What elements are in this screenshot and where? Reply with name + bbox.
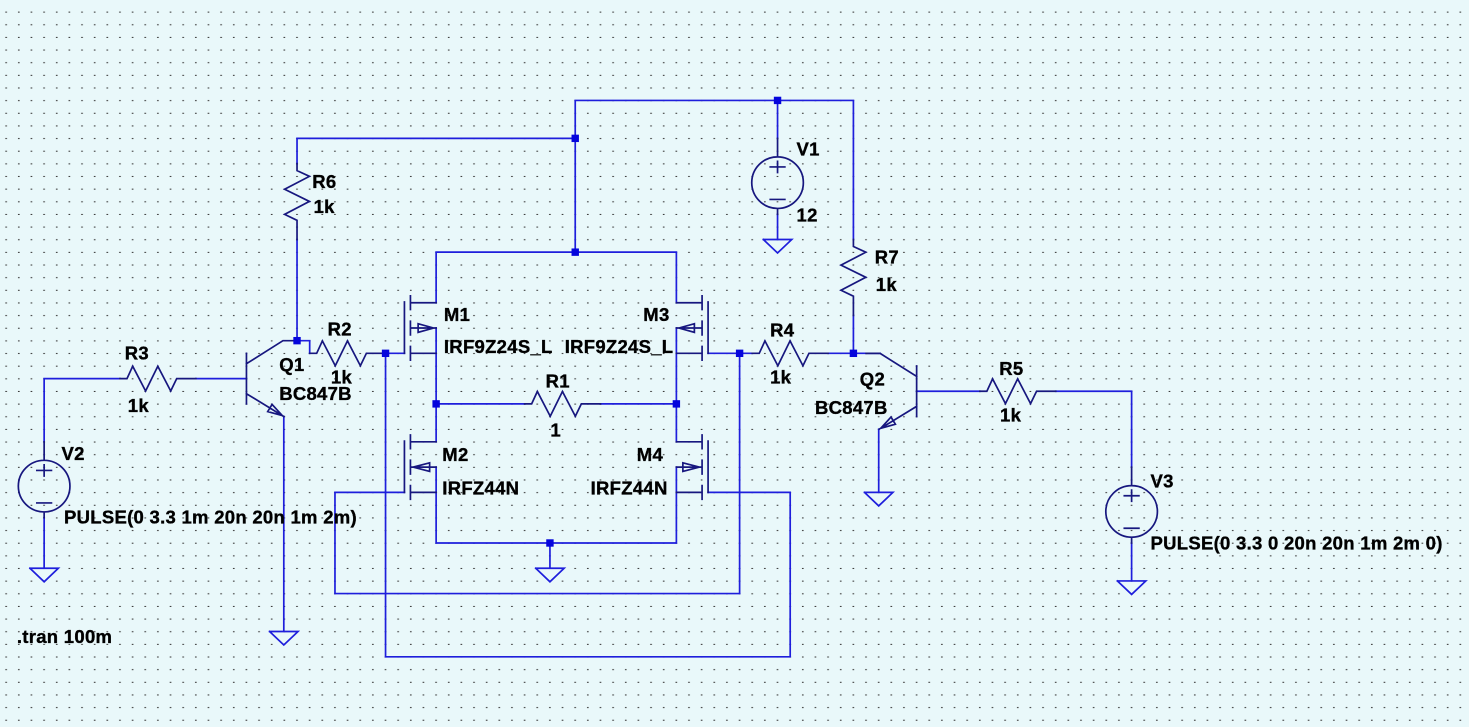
svg-text:BC847B: BC847B bbox=[815, 397, 888, 418]
svg-text:1k: 1k bbox=[876, 274, 898, 295]
svg-text:12: 12 bbox=[797, 205, 818, 226]
svg-text:1k: 1k bbox=[314, 196, 336, 217]
svg-text:M4: M4 bbox=[637, 444, 664, 465]
svg-text:1k: 1k bbox=[770, 366, 792, 387]
svg-text:M3: M3 bbox=[643, 304, 669, 325]
svg-text:V3: V3 bbox=[1151, 470, 1174, 491]
svg-text:R3: R3 bbox=[125, 342, 149, 363]
svg-text:IRFZ44N: IRFZ44N bbox=[591, 478, 668, 499]
svg-text:R1: R1 bbox=[546, 371, 570, 392]
svg-text:PULSE(0 3.3 0 20n 20n 1m 2m 0): PULSE(0 3.3 0 20n 20n 1m 2m 0) bbox=[1151, 533, 1443, 554]
svg-text:Q2: Q2 bbox=[860, 368, 885, 389]
svg-text:IRF9Z24S_L: IRF9Z24S_L bbox=[565, 336, 674, 357]
svg-text:IRF9Z24S_L: IRF9Z24S_L bbox=[444, 336, 553, 357]
svg-text:V2: V2 bbox=[62, 443, 85, 464]
svg-text:PULSE(0 3.3 1m 20n 20n 1m 2m): PULSE(0 3.3 1m 20n 20n 1m 2m) bbox=[64, 506, 357, 527]
svg-text:1: 1 bbox=[550, 420, 561, 441]
svg-text:R4: R4 bbox=[770, 319, 795, 340]
svg-text:M1: M1 bbox=[444, 304, 470, 325]
svg-text:1k: 1k bbox=[128, 395, 150, 416]
svg-text:M2: M2 bbox=[442, 444, 468, 465]
svg-text:R2: R2 bbox=[328, 319, 352, 340]
svg-text:R7: R7 bbox=[875, 247, 899, 268]
svg-text:IRFZ44N: IRFZ44N bbox=[442, 478, 519, 499]
svg-text:V1: V1 bbox=[797, 139, 820, 160]
svg-text:R5: R5 bbox=[999, 358, 1023, 379]
svg-text:1k: 1k bbox=[1000, 404, 1022, 425]
svg-text:R6: R6 bbox=[312, 171, 336, 192]
svg-text:.tran 100m: .tran 100m bbox=[17, 626, 112, 647]
svg-text:Q1: Q1 bbox=[279, 354, 304, 375]
svg-text:BC847B: BC847B bbox=[279, 383, 352, 404]
